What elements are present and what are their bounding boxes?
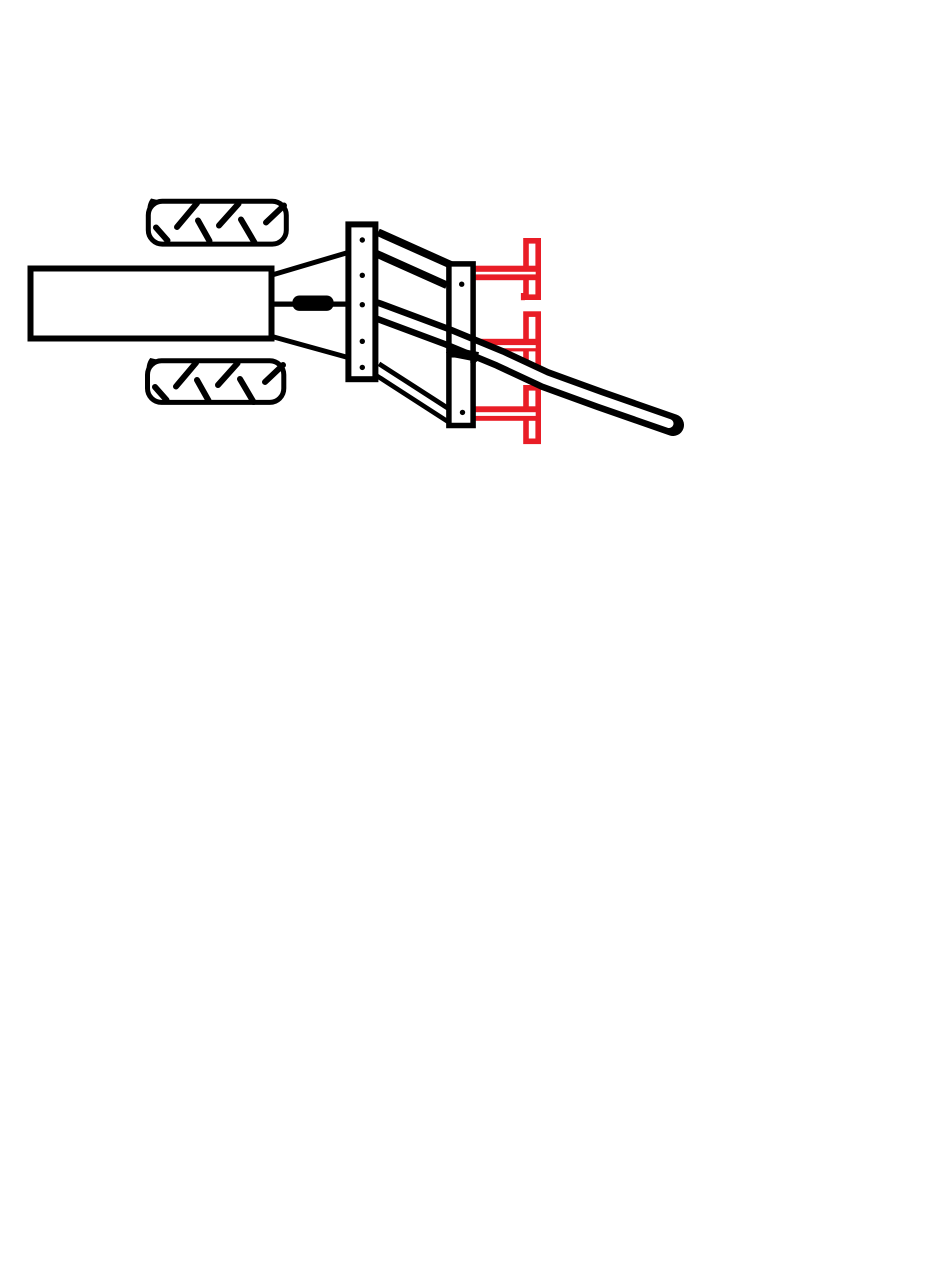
upper rear bar <box>449 264 473 343</box>
front tire (top) <box>148 200 286 245</box>
long marker arm (diagonal) <box>371 308 673 425</box>
main toolbar (front vertical bar) <box>348 224 375 379</box>
drawbar line <box>270 302 347 307</box>
row unit 2 (red shank+sweep, middle) <box>474 314 541 378</box>
lower rear bar <box>449 355 473 426</box>
hitch top arm <box>272 253 348 276</box>
row unit 3 (red shank+sweep, bottom) <box>474 388 541 442</box>
toolbar bolt dots <box>360 237 365 370</box>
drawbar coupler (thick link) <box>292 296 333 311</box>
bottom link bar <box>372 366 452 418</box>
tractor body <box>31 269 272 339</box>
rear tire (bottom) <box>147 359 283 402</box>
row unit 1 (red shank+sweep, top) <box>474 241 541 300</box>
hitch bottom arm <box>272 337 348 358</box>
top link bar <box>371 240 452 276</box>
bolt dot upper rear bar <box>459 282 464 287</box>
bolt dot lower rear bar <box>460 410 465 415</box>
